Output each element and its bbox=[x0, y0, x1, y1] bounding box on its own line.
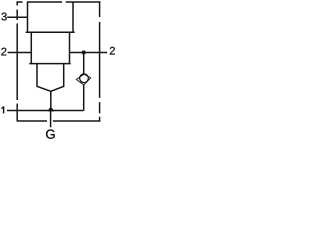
electrode body upper flange bbox=[26, 31, 75, 33]
funnel left side bbox=[37, 64, 51, 92]
arrow tip electrode on rail bbox=[47, 106, 54, 111]
terminal 1 lead wire and bottom rail bbox=[7, 110, 84, 112]
label terminal 1 bbox=[1, 106, 3, 113]
electrode body middle section right side bbox=[69, 32, 71, 63]
label terminal 2 left bbox=[1, 48, 6, 56]
label ground G bbox=[46, 130, 54, 139]
center needle electrode bbox=[50, 91, 52, 107]
funnel right side bbox=[51, 64, 64, 92]
enclosure dashed border: right side bbox=[99, 1, 101, 121]
terminal 2 right lead wire bbox=[70, 52, 108, 54]
label terminal 2 right bbox=[110, 47, 115, 55]
electrode body middle section left side bbox=[30, 32, 32, 63]
enclosure dashed border: bottom side bbox=[17, 120, 100, 122]
enclosure dashed border: left side bbox=[16, 1, 18, 121]
electrode body upper section right side bbox=[72, 2, 74, 32]
enclosure dashed border: top side bbox=[17, 1, 101, 3]
junction dot at terminal 2 branch bbox=[82, 50, 86, 54]
wire from junction down to component bbox=[83, 53, 85, 75]
terminal 3 lead wire bbox=[7, 16, 27, 18]
electrode body upper section left side bbox=[27, 2, 29, 32]
ground stub wire to G bbox=[50, 111, 52, 128]
label terminal 3 bbox=[2, 13, 7, 21]
component diamond bbox=[76, 74, 91, 85]
component circle bbox=[80, 74, 89, 83]
terminal 2 left lead wire bbox=[8, 52, 32, 54]
electrode body lower flange bbox=[29, 63, 70, 65]
wire from component down to bottom rail bbox=[83, 85, 85, 111]
